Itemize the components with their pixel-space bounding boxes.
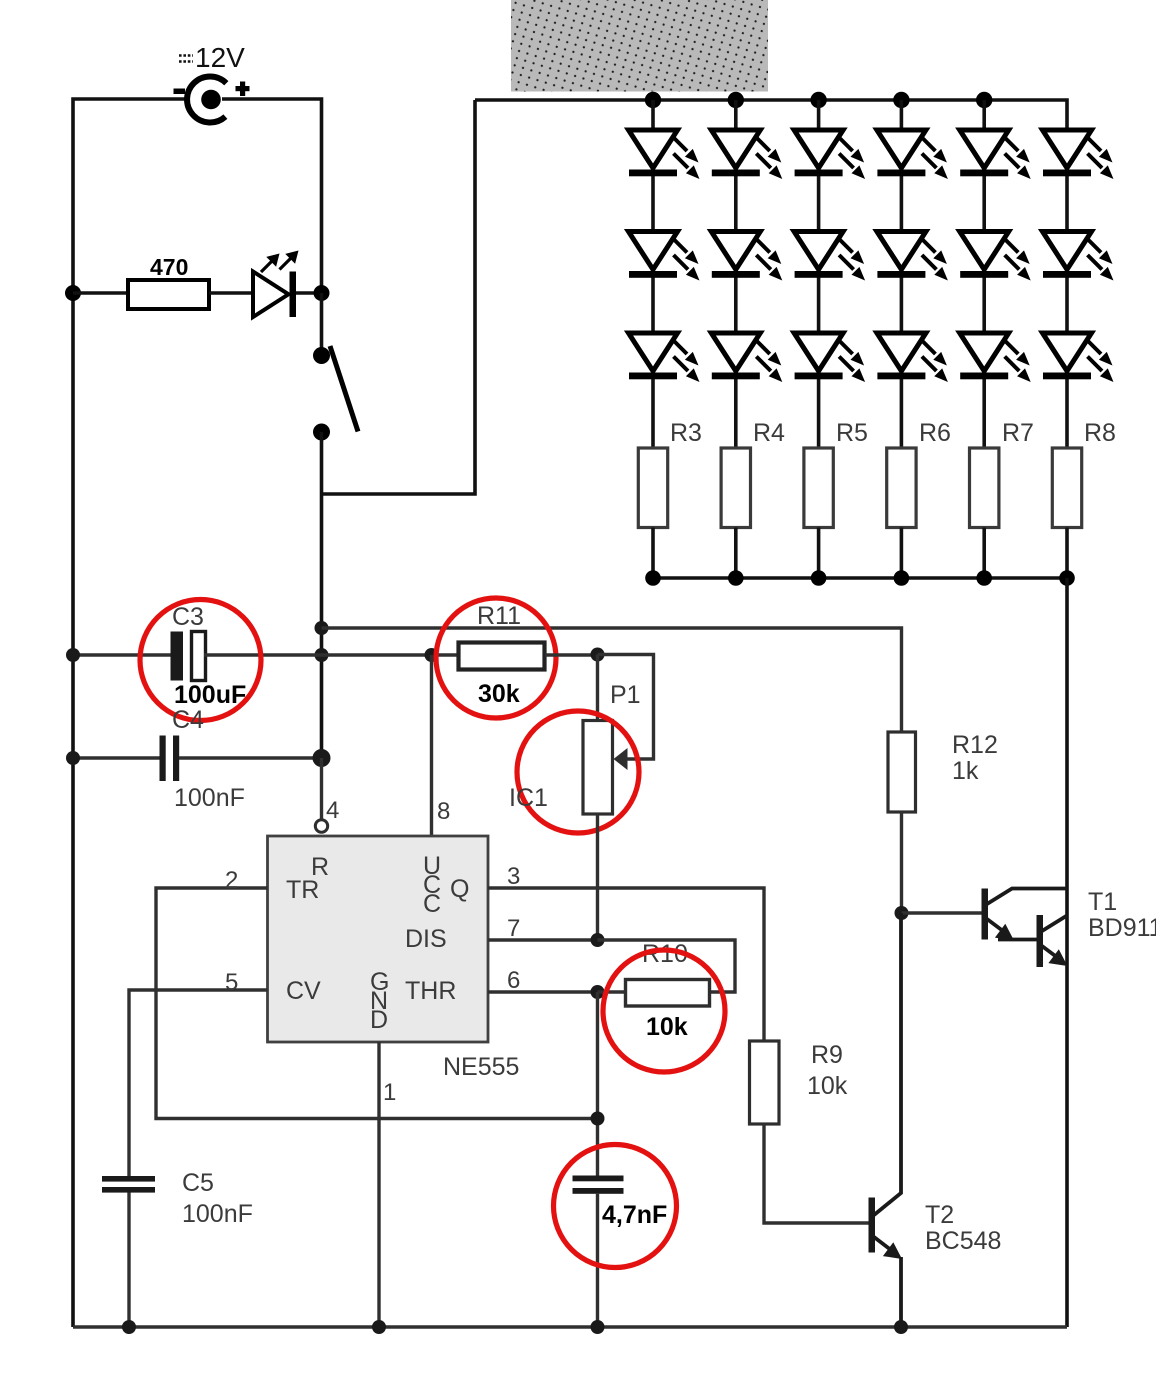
node left rail C4: [66, 751, 80, 765]
label =12V: [179, 42, 245, 73]
svg-text:R3: R3: [670, 419, 702, 447]
resistor R6: [887, 448, 916, 528]
wire pin 5 control: [129, 990, 268, 1176]
LED D31: [629, 333, 700, 382]
wire col6 to bottom bus: [1065, 528, 1069, 579]
svg-text:NE555: NE555: [443, 1053, 519, 1081]
node junction LED / switch rail: [314, 285, 330, 301]
svg-text:R8: R8: [1084, 419, 1116, 447]
svg-text:R4: R4: [753, 419, 785, 447]
svg-text:10k: 10k: [646, 1013, 688, 1041]
wire C3 row: [73, 653, 171, 656]
node trigger tie: [591, 1112, 605, 1126]
LED D25: [960, 232, 1031, 281]
wire to switch: [320, 293, 324, 356]
LED D26: [1043, 232, 1114, 281]
svg-text:P1: P1: [610, 681, 641, 709]
wire LED column 1: [651, 100, 655, 448]
wire C4 row: [73, 756, 160, 759]
LED D35: [960, 333, 1031, 382]
wire top LED bus: [475, 100, 1067, 130]
LED D34: [877, 333, 948, 382]
pin 4 inverted circle: [315, 820, 327, 832]
resistor R8: [1052, 448, 1081, 528]
svg-text:100uF: 100uF: [174, 681, 246, 709]
svg-text:100nF: 100nF: [182, 1200, 253, 1228]
wire collector riser to T1: [1065, 578, 1069, 1327]
wire switch down: [320, 432, 324, 758]
wire T1 base: [902, 911, 982, 914]
svg-text:Q: Q: [450, 875, 469, 903]
svg-text:1k: 1k: [952, 757, 979, 785]
svg-text:8: 8: [437, 798, 450, 825]
wire LED bottom bus: [653, 576, 1067, 580]
LED D15: [960, 130, 1031, 179]
wire threshold node down: [596, 992, 599, 1176]
hatched placeholder box: [511, 0, 768, 92]
node top bus col5: [976, 92, 992, 108]
capacitor C4 100nF: [160, 736, 180, 782]
svg-text:3: 3: [507, 863, 520, 890]
node ground T2 emitter: [894, 1320, 908, 1334]
resistor R5: [804, 448, 833, 528]
LED indicator D1: [253, 251, 322, 318]
wire R12 to base node: [900, 812, 903, 913]
wire col2 to bottom bus: [734, 528, 738, 579]
node T1 base junction: [895, 906, 909, 920]
node bottom bus col4: [894, 570, 910, 586]
wire pin 4 reset: [320, 758, 323, 820]
capacitor C3 100uF electrolytic: [171, 632, 206, 681]
LED D33: [794, 333, 865, 382]
svg-text:7: 7: [507, 915, 520, 942]
LED D24: [877, 232, 948, 281]
svg-text:C3: C3: [172, 603, 204, 631]
svg-text:IC1: IC1: [509, 784, 548, 812]
wire col3 to bottom bus: [817, 528, 821, 579]
wire LED column 2: [734, 100, 738, 448]
svg-text:470: 470: [150, 254, 188, 280]
svg-text:THR: THR: [405, 977, 456, 1005]
svg-text:4: 4: [326, 797, 339, 824]
node ground timing cap: [591, 1320, 605, 1334]
node bottom bus col2: [728, 570, 744, 586]
svg-text:R6: R6: [919, 419, 951, 447]
node top bus col3: [810, 92, 826, 108]
LED D23: [794, 232, 865, 281]
wire resistor to LED: [209, 291, 253, 295]
wire C4 to rail: [179, 756, 322, 759]
svg-text:2: 2: [225, 867, 238, 894]
wire pin 8 supply: [430, 655, 433, 836]
wire pin 6 threshold: [488, 990, 598, 993]
svg-text:R9: R9: [811, 1041, 843, 1069]
wire pin 2 trigger: [156, 888, 598, 1119]
power supply 12V DC source: [174, 76, 250, 122]
node bottom bus col1: [645, 570, 661, 586]
node switched rail / R11 row: [315, 648, 329, 662]
svg-text:C5: C5: [182, 1169, 214, 1197]
LED D22: [711, 232, 782, 281]
svg-text:TR: TR: [286, 876, 319, 904]
wire left supply rail: [73, 99, 188, 1327]
svg-text:T1: T1: [1088, 888, 1117, 916]
wire LED column 3: [817, 100, 821, 448]
wire R11 row: [322, 653, 459, 656]
wire C3 to rail: [204, 653, 322, 656]
svg-text:4,7nF: 4,7nF: [602, 1201, 667, 1229]
wire col5 to bottom bus: [982, 528, 986, 579]
LED D12: [711, 130, 782, 179]
resistor R11: [459, 643, 545, 670]
svg-text:5: 5: [225, 969, 238, 996]
svg-text:R12: R12: [952, 731, 998, 759]
node left rail C3: [66, 648, 80, 662]
node ground pin1: [372, 1320, 386, 1334]
svg-text:R5: R5: [836, 419, 868, 447]
svg-text:12V: 12V: [195, 42, 245, 73]
wire R9 to T2 base: [764, 1124, 869, 1223]
capacitor C6 4,7nF: [573, 1176, 624, 1328]
wire col4 to bottom bus: [900, 528, 904, 579]
wire indicator branch: [73, 291, 128, 295]
svg-text:C4: C4: [172, 706, 204, 734]
wire R12 feed: [322, 628, 902, 732]
svg-text:T2: T2: [925, 1201, 954, 1229]
wire switched +V to LED matrix: [322, 100, 476, 494]
LED D32: [711, 333, 782, 382]
resistor 470: [128, 280, 209, 309]
highlight circle R10: [603, 950, 725, 1072]
wire col1 to bottom bus: [651, 528, 655, 579]
svg-text:1: 1: [383, 1079, 396, 1106]
node bottom bus col3: [811, 570, 827, 586]
node pin8 tap: [425, 648, 439, 662]
wire +12V rail to switch: [222, 99, 322, 293]
node P1 top: [591, 648, 605, 662]
svg-text:100nF: 100nF: [174, 784, 245, 812]
svg-text:BD911: BD911: [1088, 914, 1156, 942]
node discharge junction: [591, 933, 605, 947]
wire pin 7 discharge: [488, 938, 598, 941]
highlight circle R11: [436, 598, 556, 718]
resistor R3: [638, 448, 667, 528]
wire R10 left: [598, 990, 626, 993]
node bottom bus col5: [976, 570, 992, 586]
wire LED column 5: [982, 100, 986, 448]
svg-text:30k: 30k: [478, 680, 520, 708]
highlight circle C3: [140, 600, 261, 721]
wire R11 to P1: [545, 653, 598, 656]
resistor R10: [626, 980, 710, 1007]
LED D16: [1043, 130, 1114, 179]
LED D13: [794, 130, 865, 179]
svg-text:CV: CV: [286, 977, 321, 1005]
resistor R4: [721, 448, 750, 528]
svg-text:BC548: BC548: [925, 1227, 1001, 1255]
svg-text:R11: R11: [477, 602, 521, 630]
node threshold junction: [591, 985, 605, 999]
svg-text:C: C: [423, 890, 441, 918]
node reset junction: [313, 749, 331, 767]
node bottom bus col6: [1059, 570, 1075, 586]
switch S1: [313, 346, 358, 441]
IC U1 NE555 body: [268, 836, 489, 1042]
LED D11: [629, 130, 700, 179]
svg-text:6: 6: [507, 967, 520, 994]
transistor T1 BD911 darlington: [982, 889, 1068, 968]
wire ground bus: [73, 1325, 1067, 1328]
label UCC stacked: [423, 852, 441, 918]
wire pin 1 ground: [377, 1042, 380, 1327]
transistor T2 BC548: [869, 913, 903, 1327]
resistor R12: [888, 732, 916, 812]
capacitor C5 100nF: [102, 1176, 155, 1327]
wire LED column 6: [1065, 130, 1069, 448]
wire LED column 4: [900, 100, 904, 448]
node top bus col1: [645, 92, 661, 108]
node ground C5: [122, 1320, 136, 1334]
label GND stacked: [370, 968, 389, 1034]
wire P1 wiper down: [596, 814, 599, 940]
LED D36: [1043, 333, 1114, 382]
LED D21: [629, 232, 700, 281]
LED D14: [877, 130, 948, 179]
node switched rail / R12 feed: [315, 621, 329, 635]
svg-text:D: D: [370, 1006, 388, 1034]
node top bus col4: [893, 92, 909, 108]
highlight circle P1: [517, 711, 639, 833]
potentiometer P1: [583, 655, 654, 815]
svg-text:DIS: DIS: [405, 925, 447, 953]
highlight circle 4,7nF: [554, 1145, 677, 1268]
node junction left rail / indicator branch: [65, 285, 81, 301]
resistor R9: [750, 1041, 780, 1124]
resistor R10 loop wire: [598, 940, 736, 992]
resistor R7: [970, 448, 999, 528]
node top bus col2: [728, 92, 744, 108]
svg-text:R7: R7: [1002, 419, 1034, 447]
wire pin 3 output: [488, 888, 764, 1041]
svg-text:10k: 10k: [807, 1072, 848, 1100]
